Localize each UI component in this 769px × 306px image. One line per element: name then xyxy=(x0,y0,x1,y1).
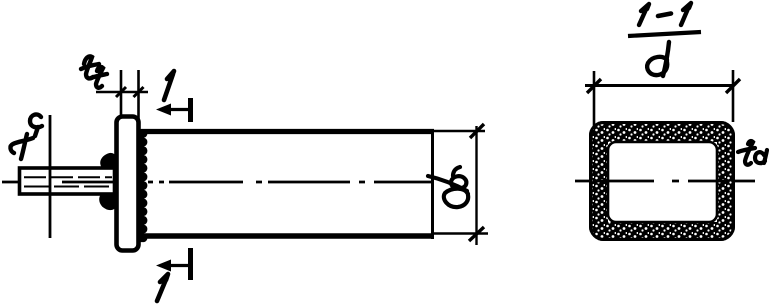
weld bead top xyxy=(101,154,114,168)
section mark bottom bar xyxy=(188,248,193,280)
label db xyxy=(428,167,468,207)
label td xyxy=(738,141,767,165)
underline 1-1 xyxy=(628,32,701,36)
extension line tt right xyxy=(137,70,140,120)
tube top line xyxy=(141,129,434,134)
label t1c xyxy=(10,114,42,159)
extension line t1c xyxy=(49,115,52,238)
dimension line d xyxy=(585,84,734,87)
section mark bottom arrow xyxy=(162,264,190,267)
extension line d left xyxy=(593,71,596,126)
section mark top bar xyxy=(188,98,193,122)
extension line bottom right xyxy=(434,232,488,234)
flange plate xyxy=(117,117,139,251)
extension line d right xyxy=(732,70,735,122)
thread line lower xyxy=(24,186,112,188)
centerline main view xyxy=(2,181,470,184)
dimension line db xyxy=(475,126,477,245)
centerline section xyxy=(575,180,756,183)
label 1-1 xyxy=(639,4,649,25)
tick tt right xyxy=(134,87,144,97)
tick db top xyxy=(470,124,484,138)
tube right end xyxy=(431,129,434,239)
tick d right xyxy=(726,79,740,93)
label 1 bottom xyxy=(157,274,168,301)
section wall scribble xyxy=(590,122,734,240)
extension line tt left xyxy=(120,70,123,117)
section outer contour xyxy=(591,123,734,240)
label tt xyxy=(81,56,107,87)
label 1 top xyxy=(164,71,174,100)
tick d left xyxy=(587,79,601,93)
thread line upper xyxy=(24,176,112,178)
section mark top arrow xyxy=(162,108,190,111)
section inner contour xyxy=(608,142,717,222)
tick db bottom xyxy=(469,227,484,241)
dimension line tt xyxy=(96,91,148,94)
extension line top right xyxy=(434,130,485,132)
mask corners outside rounded outer xyxy=(590,122,734,240)
weld teeth xyxy=(139,129,147,242)
tick tt left xyxy=(116,87,126,97)
tube bottom line xyxy=(141,233,434,238)
bolt shank xyxy=(20,168,115,194)
weld bead bottom xyxy=(100,194,114,209)
label d xyxy=(647,42,669,76)
